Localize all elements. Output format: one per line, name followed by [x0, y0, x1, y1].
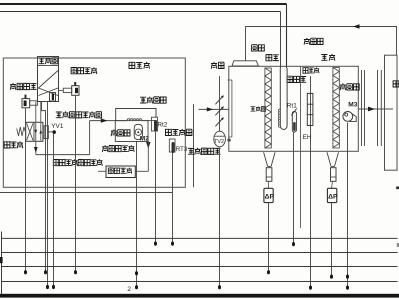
arrow condenser outlet down — [146, 142, 150, 149]
junction M2-bus4 — [135, 285, 138, 289]
damper actuator TV2 bar — [214, 135, 225, 137]
left edge mark — [0, 257, 3, 263]
outdoor unit box — [3, 58, 185, 187]
damper blade 3 tip — [221, 117, 224, 120]
four-way valve straight ports — [36, 123, 41, 141]
sensor Rt1 tick — [291, 109, 296, 116]
supply air line — [358, 108, 393, 110]
high pressure switch SP2 body — [72, 86, 79, 96]
wire Rt2 to bus — [155, 131, 157, 242]
low pressure switch mark — [24, 101, 27, 107]
wire suction pipe (thick top run) — [0, 3, 287, 5]
return air inlet cap — [232, 61, 258, 66]
label outdoor unit 室外机 — [129, 62, 150, 69]
condenser fan box — [115, 121, 148, 142]
junction TV2-bus4 — [218, 285, 221, 289]
wire trap to dP2 — [332, 181, 333, 188]
high pressure switch mark — [75, 88, 78, 93]
mid-filter band — [333, 68, 339, 149]
condenser coil — [127, 119, 142, 121]
wire fan M2 to bus — [136, 141, 138, 285]
pre-filter zigzag — [265, 68, 271, 148]
damper blade 2 tip — [221, 106, 224, 109]
four-way valve body — [26, 122, 43, 141]
junction dP1-bus3 — [267, 270, 270, 274]
air handler box — [229, 66, 358, 151]
svg-text:M3: M3 — [348, 102, 357, 109]
supply fan hub — [345, 113, 348, 116]
wire YV1 to bus — [53, 134, 55, 285]
label indoor unit 室内机 — [304, 38, 323, 45]
supply duct bar 1b — [364, 70, 366, 146]
junction YV1-bus4 — [52, 285, 55, 289]
pre-filter trap divider — [266, 176, 272, 178]
air handler inner wall top tick — [228, 79, 232, 81]
label pre-filter 初效 — [266, 55, 279, 61]
mid-filter zigzag — [333, 68, 339, 148]
bus line 3 — [2, 266, 398, 268]
label liquid freon 液态氟里昂 — [102, 145, 134, 152]
wire compressor to HP stub — [59, 89, 64, 91]
high pressure switch top nipple — [74, 82, 76, 86]
mid-filter trap divider — [331, 176, 337, 178]
four-way valve divider — [33, 122, 35, 141]
label cold gaseous freon 低温汽态的氟里昂 — [53, 159, 102, 166]
heater element divider 2 — [307, 114, 313, 116]
pressure sensor dP2 box — [327, 188, 336, 202]
pipe suction run — [36, 154, 90, 156]
air handler partition — [300, 66, 302, 228]
junction Rt1-bus1 — [292, 242, 295, 246]
label return air 回风 — [252, 45, 265, 51]
svg-text:TV2: TV2 — [214, 139, 224, 145]
junction Rt2-bus1 — [154, 242, 157, 246]
pre-filter band — [265, 68, 271, 148]
damper blade 1 — [215, 96, 223, 105]
svg-text:YV1: YV1 — [51, 123, 64, 130]
arrow condenser inlet — [101, 118, 108, 122]
pre-filter funnel — [264, 152, 276, 166]
label four-way valve 四通阀 — [4, 141, 23, 148]
damper blade 2 — [215, 107, 223, 116]
supply fan housing foot — [350, 113, 357, 121]
svg-text:RT3: RT3 — [176, 146, 188, 153]
damper actuator TV2 body — [214, 131, 226, 147]
duct wall tick — [228, 139, 231, 142]
sensor RT3 housing — [169, 139, 175, 152]
heater element stack — [307, 93, 313, 125]
right edge mark — [397, 243, 399, 247]
condenser fan M2 housing — [134, 124, 142, 139]
junction M2-bus3 — [135, 271, 138, 275]
compressor motor block — [50, 93, 56, 102]
arrow fresh air — [207, 107, 213, 111]
bus line 2 — [2, 252, 398, 254]
arrow valve down leg — [34, 147, 38, 153]
room label fragment — [396, 187, 399, 190]
wire room box feed drop — [396, 27, 398, 56]
label fin temperature 翅片温度 — [140, 97, 166, 104]
bus left rail — [1, 232, 3, 297]
air handler inner wall — [231, 80, 233, 137]
sensor Rt2 housing — [151, 117, 157, 131]
junction HP-bus3 — [74, 270, 77, 274]
wire dP2 to bus — [331, 203, 333, 275]
arrow return air (left) — [353, 24, 360, 29]
wire liquid pipe drop — [280, 12, 282, 69]
bus line 4 — [2, 281, 398, 283]
junction YV1 — [53, 130, 56, 134]
junction M3-bus4b — [346, 286, 349, 290]
fresh air duct line — [193, 104, 195, 187]
label room 室内 — [393, 81, 399, 87]
pipe condenser to riser — [142, 120, 155, 122]
wire Rt2 loop — [116, 109, 156, 121]
pre-filter trap — [266, 168, 272, 182]
junction RT3-bus1 — [171, 242, 174, 246]
evaporator body — [280, 68, 287, 130]
junction compressor2-bus4 — [46, 285, 49, 289]
svg-text:Rt1: Rt1 — [287, 102, 297, 109]
label mid filter 中效 — [321, 54, 335, 61]
wire compressor a to bus — [42, 101, 46, 270]
supply fan M3 blade — [343, 112, 353, 122]
pressure sensor dP1 box — [264, 188, 273, 202]
wire trap to dP1 — [268, 181, 270, 188]
label hot high pressure freon 高温高压氟里昂 — [56, 111, 102, 118]
compressor M1 body — [38, 57, 59, 102]
label electric heater 电加热 — [303, 67, 319, 73]
wire LP switch to bus — [25, 108, 27, 270]
low pressure switch top nipple — [25, 95, 27, 99]
pipe condenser outlet drop — [147, 141, 149, 171]
heater element divider 1 — [307, 103, 313, 105]
sensor Rt1 inner — [293, 122, 296, 131]
pipe suction riser — [89, 121, 91, 155]
damper duct line — [219, 76, 221, 131]
wire HP switch to bus — [75, 95, 77, 270]
evaporator coil loops — [278, 109, 280, 127]
damper blade 3 — [215, 118, 223, 127]
wire compressor port 2 to valve — [40, 102, 42, 123]
label evaporator 蒸发器 — [287, 76, 306, 82]
label high pressure switch 高压开关 — [71, 67, 97, 74]
bus line 1 — [2, 237, 398, 239]
wire solenoid to junction — [48, 131, 53, 133]
four-way valve port arrow 1 — [34, 130, 37, 134]
label compressor 压缩机 — [39, 58, 58, 64]
wire return air drop — [245, 27, 247, 61]
label fresh air temperature 新风温度 — [166, 129, 192, 136]
wire liquid pipe (second top run) — [0, 11, 280, 13]
wire TV2 to bus — [219, 148, 221, 286]
junction dP2-bus4 — [330, 275, 333, 279]
heater EH wire — [310, 76, 312, 286]
label low pressure switch 低压开关 — [10, 83, 37, 90]
compressor motor mark — [52, 94, 54, 100]
pipe riser — [154, 121, 156, 131]
sensor RT3 capsule — [172, 142, 175, 153]
low pressure switch SP1 body — [22, 99, 30, 108]
pipe riser to condenser — [90, 120, 127, 122]
junction M3-bus4a — [346, 275, 349, 279]
supply duct bar 1a — [361, 70, 363, 146]
fresh air arrow line — [199, 108, 229, 110]
mid-filter trap — [331, 168, 337, 182]
wire RT3 to bus — [172, 153, 174, 242]
wire suction pipe drop — [286, 4, 288, 68]
pipe throttle to drop — [135, 170, 148, 172]
label throttling device 节流装置 — [108, 168, 132, 174]
label mixing section 混风段 — [251, 106, 266, 111]
bottom border bar — [0, 294, 399, 298]
label condenser 冷凝器 — [111, 129, 130, 136]
pipe valve down leg — [35, 141, 37, 154]
wire Rt1 to bus — [293, 132, 295, 242]
wire fan M3 to bus — [347, 123, 349, 286]
sensor Rt2 capsule — [154, 120, 157, 132]
wire compressor b to bus — [47, 102, 49, 286]
wire dP1 to bus — [268, 203, 270, 271]
svg-text:2: 2 — [127, 286, 131, 293]
air handler inner wall tick — [229, 136, 232, 138]
LP switch connector stub — [30, 101, 38, 105]
compressor label divider — [38, 64, 59, 66]
HP switch connector stub — [63, 88, 71, 92]
svg-text:Rt2: Rt2 — [157, 121, 167, 128]
svg-text:EH: EH — [303, 134, 312, 141]
label supply fan 送风机 — [340, 83, 359, 90]
junction compressor-bus3 — [44, 270, 47, 274]
condenser fan hub — [135, 129, 141, 135]
arrow supply air — [368, 107, 375, 112]
supply duct bar 2b — [380, 70, 382, 146]
four-way valve spring — [17, 127, 26, 136]
throttling device box — [106, 166, 135, 178]
wire compressor ports to valve — [35, 102, 37, 123]
junction LP-bus3 — [24, 270, 27, 274]
svg-text:ΔP: ΔP — [265, 193, 275, 200]
four-way valve crossover — [27, 123, 33, 140]
wire sensor run to left edge — [0, 192, 173, 194]
compressor internal vanes — [39, 71, 59, 96]
wire return air duct run — [245, 26, 397, 28]
pipe throttle left stub — [98, 170, 106, 172]
damper blade 1 tip — [221, 95, 224, 98]
label fresh air 新风 — [211, 62, 224, 69]
sensor Rt1 capsule — [292, 112, 296, 133]
junction EH-bus4 — [309, 286, 312, 290]
label damper actuator 风阀执行器 — [188, 148, 221, 155]
svg-text:ΔP: ΔP — [328, 193, 338, 200]
solenoid YV1 coil — [44, 126, 48, 139]
mid-filter funnel — [327, 152, 339, 166]
condenser fan hub dot — [137, 131, 139, 133]
room box — [385, 55, 398, 170]
four-way valve port arrow 2 — [39, 130, 42, 134]
supply duct bar 2a — [377, 70, 379, 146]
